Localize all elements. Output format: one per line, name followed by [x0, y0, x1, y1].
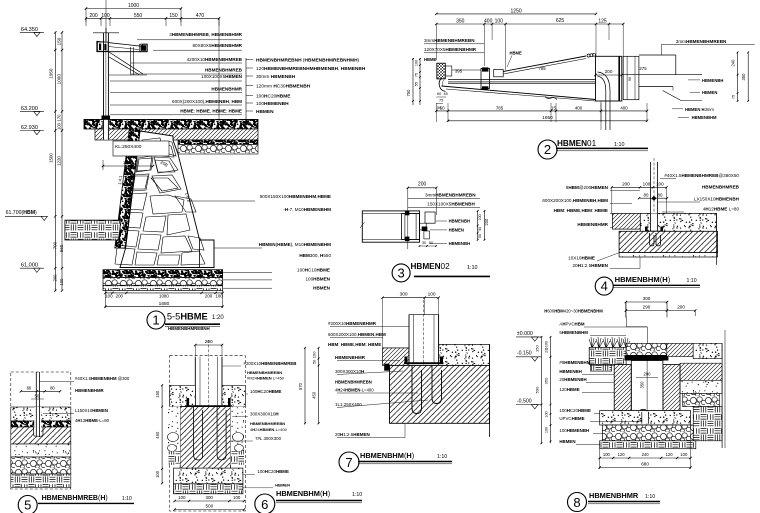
detail 4 right edge extension — [715, 213, 717, 265]
svg-text:H600HBM420~30HBMENBHM: H600HBM420~30HBMENBHM — [544, 309, 603, 314]
svg-text:5-5HBME: 5-5HBME — [167, 312, 208, 322]
detail 3 right dim column — [477, 211, 479, 240]
svg-text:120HBMENBHMREBNHMHBMENBH, HBME: 120HBMENBHMREBNHMHBMENBH, HBMENBH — [256, 66, 366, 72]
detail 4 concrete slab — [619, 231, 717, 252]
left tip gutter piece — [439, 78, 445, 92]
detail 2 top dim 1250 — [436, 13, 596, 15]
detail 4 paving layers — [612, 213, 640, 229]
svg-text:2@100: 2@100 — [545, 341, 549, 353]
UPVC pipe through slab — [642, 412, 649, 424]
svg-text:1:20: 1:20 — [212, 315, 224, 321]
svg-text:HBMEN: HBMEN — [559, 439, 575, 444]
svg-text:4H24HBMEN-L=400: 4H24HBMEN-L=400 — [250, 427, 288, 432]
right panel of box — [623, 56, 639, 99]
svg-text:8HBM@200HBMEN: 8HBM@200HBMEN — [566, 185, 609, 190]
svg-text:HBMEN H3mm: HBMEN H3mm — [685, 107, 714, 112]
detail 5 post — [35, 372, 37, 440]
detail 6 dashed border — [170, 356, 246, 511]
svg-text:L150X10HBMEN: L150X10HBMEN — [75, 408, 108, 413]
rammed soil band — [174, 484, 243, 494]
svg-text:HBMENBHMR: HBMENBHMR — [75, 388, 105, 393]
detail 3 beam body — [362, 211, 419, 242]
svg-text:#200X10HBMENBHMREB: #200X10HBMENBHMREB — [244, 361, 297, 366]
svg-text:1L1:250X400: 1L1:250X400 — [335, 402, 362, 407]
svg-text:300X300X10H: 300X300X10H — [250, 411, 279, 416]
svg-text:30mm HBMENBH: 30mm HBMENBH — [256, 74, 296, 80]
small kerb pieces below left — [591, 365, 612, 372]
svg-text:100: 100 — [643, 182, 651, 187]
break mark left — [360, 222, 365, 228]
bedding slab stipple — [174, 468, 243, 484]
svg-text:450: 450 — [155, 431, 160, 439]
svg-text:100: 100 — [545, 427, 549, 433]
svg-text:750: 750 — [406, 89, 411, 97]
svg-text:625: 625 — [556, 18, 565, 24]
svg-text:5HBMENBHM: 5HBMENBHM — [559, 330, 588, 335]
detail 6 post — [195, 357, 222, 407]
title circle 3 — [392, 264, 410, 282]
detail 4 dims 200/100/100 — [612, 186, 667, 188]
svg-text:90: 90 — [628, 77, 632, 81]
svg-text:HBMENBHMREBNH (HBMENBHMREBNHMH: HBMENBHMREBNH (HBMENBHMREBNHMH) — [256, 57, 360, 63]
post centerline — [105, 0, 107, 33]
svg-text:75: 75 — [415, 73, 419, 77]
detail 7 foundation block — [390, 365, 490, 423]
svg-text:HBMENBHMREB: HBMENBHMREB — [205, 68, 243, 73]
post passing through pavement band — [103, 119, 110, 139]
pavement concrete hatch band — [95, 129, 258, 140]
svg-text:#40X1.5HBMENBHM @300: #40X1.5HBMENBHM @300 — [75, 376, 130, 381]
svg-text:350: 350 — [544, 377, 549, 384]
svg-text:120: 120 — [666, 452, 674, 457]
svg-text:700: 700 — [53, 241, 58, 249]
top sloped chord double line — [503, 56, 586, 72]
svg-text:80X80X5HBMENBHMR: 80X80X5HBMENBHMR — [192, 43, 242, 48]
svg-text:64.350: 64.350 — [21, 27, 38, 33]
svg-text:100: 100 — [311, 351, 316, 358]
svg-text:1:10: 1:10 — [645, 494, 655, 500]
svg-text:1:10: 1:10 — [687, 278, 697, 284]
svg-text:4: 4 — [601, 279, 608, 294]
svg-text:45: 45 — [444, 92, 448, 96]
svg-text:1000: 1000 — [56, 74, 61, 85]
svg-text:100HC20HBME: 100HC20HBME — [250, 389, 282, 394]
detail 7 base plate and bolts — [404, 362, 444, 364]
svg-text:HBMEN: HBMEN — [275, 483, 290, 488]
detail 2 bottom dims — [436, 110, 647, 112]
svg-text:HBME: HBME — [424, 57, 437, 62]
svg-text:100: 100 — [603, 452, 611, 457]
svg-text:100: 100 — [495, 18, 504, 24]
svg-text:600X200X100,HBMENBH,HBM: 600X200X100,HBMENBH,HBM — [542, 198, 608, 203]
svg-text:HBM300, H550: HBM300, H550 — [299, 253, 331, 258]
bottom sloped chord — [442, 86, 596, 100]
right pavement bands top — [667, 343, 693, 356]
detail 7 left paving hatch — [383, 348, 409, 366]
svg-text:61,000: 61,000 — [21, 263, 38, 269]
svg-text:350: 350 — [640, 381, 645, 389]
svg-text:#8HBMENBHM: #8HBMENBHM — [559, 360, 590, 365]
svg-text:240: 240 — [731, 59, 736, 67]
svg-text:100: 100 — [233, 495, 241, 500]
svg-text:50: 50 — [478, 234, 482, 238]
svg-text:290: 290 — [643, 305, 651, 310]
channel bottom black bits — [641, 409, 646, 412]
title circle 2 — [538, 140, 557, 159]
grass tufts — [589, 337, 596, 348]
svg-text:75: 75 — [732, 95, 736, 99]
svg-text:HBMENBHMR: HBMENBHMR — [211, 86, 242, 91]
svg-text:HBMEN: HBMEN — [702, 90, 717, 95]
pavement dark topping band — [84, 119, 258, 129]
svg-text:4200X10HBMENBHMREB: 4200X10HBMENBHMREB — [187, 57, 243, 62]
svg-text:600X(200X100),HBMENBH, HBM: 600X(200X100),HBMENBH, HBM — [172, 99, 242, 104]
detail 6 base plate and anchor bolts — [185, 405, 232, 407]
svg-text:100HBMENBH: 100HBMENBH — [559, 428, 589, 433]
svg-text:20H1:2.5HBMEN: 20H1:2.5HBMEN — [572, 263, 608, 268]
right side framing lines — [639, 54, 676, 56]
svg-text:100: 100 — [215, 294, 223, 299]
svg-text:3mmHBMENBHMREBN: 3mmHBMENBHMREBN — [424, 38, 475, 43]
svg-text:200: 200 — [116, 294, 124, 299]
svg-text:1:10: 1:10 — [614, 142, 625, 148]
svg-text:15: 15 — [551, 105, 556, 110]
detail 5 dashed border — [11, 372, 71, 489]
svg-text:1000: 1000 — [128, 3, 139, 9]
cobble strip over channel — [626, 343, 667, 355]
left end cap of roof beam — [437, 63, 446, 79]
diagonal brace — [109, 52, 143, 74]
svg-text:120mm HC30HBMENBH: 120mm HC30HBMENBH — [256, 84, 311, 90]
svg-text:680: 680 — [641, 462, 649, 467]
svg-text:HBME: HBME, HBME: HBME: HBME: HBME, HBME: HBME — [180, 109, 242, 114]
svg-text:1680: 1680 — [159, 301, 170, 307]
beam label KL 250X400 — [113, 141, 169, 156]
detail 7 right bedding stipple — [439, 344, 490, 365]
beam end cap box — [402, 214, 420, 240]
detail 6 top stipple band — [170, 385, 196, 406]
side cobbles — [168, 433, 179, 442]
center connector with bolts — [481, 68, 490, 88]
svg-text:570: 570 — [298, 382, 303, 390]
svg-text:200: 200 — [53, 274, 58, 282]
svg-text:UPVCHBME: UPVCHBME — [559, 416, 584, 421]
detail 2 dims 350/400/100/625/125 — [436, 23, 623, 25]
svg-text:1500: 1500 — [49, 153, 54, 163]
svg-text:HBMENBHMREBN: HBMENBHMREBN — [335, 380, 372, 385]
svg-text:200: 200 — [205, 339, 213, 345]
dim 200 inside box — [596, 74, 622, 76]
svg-text:100HBMEN: 100HBMEN — [305, 277, 330, 282]
detail 8 top dims — [626, 301, 667, 303]
svg-text:200: 200 — [605, 69, 613, 74]
svg-text:100HC20HBME: 100HC20HBME — [559, 408, 591, 413]
title circle 7 — [339, 452, 359, 472]
svg-text:785: 785 — [538, 66, 546, 71]
svg-text:100: 100 — [478, 214, 482, 220]
detail 8 left dim lines — [541, 337, 543, 443]
svg-text:3mmHBMENBHMREBN: 3mmHBMENBHMREBN — [425, 192, 476, 197]
svg-text:AHPVCHBM: AHPVCHBM — [559, 321, 584, 326]
svg-text:4H12HBME-L=80: 4H12HBME-L=80 — [75, 418, 110, 423]
svg-text:1000: 1000 — [123, 160, 134, 165]
svg-text:170: 170 — [56, 114, 61, 122]
svg-text:10X10HBME: 10X10HBME — [568, 256, 595, 261]
svg-text:100: 100 — [56, 122, 61, 130]
svg-text:200: 200 — [418, 182, 427, 188]
svg-text:HBMENBHM(H): HBMENBHM(H) — [615, 275, 671, 284]
detail 5 layer bands — [11, 407, 71, 421]
title circle 5 — [18, 496, 37, 513]
svg-text:55: 55 — [415, 82, 419, 86]
svg-text:HBMENBHMR: HBMENBHMR — [577, 222, 608, 227]
svg-text:±0.000: ±0.000 — [517, 331, 533, 337]
svg-text:550: 550 — [134, 13, 143, 19]
svg-text:LX150X10HBMENBH: LX150X10HBMENBH — [694, 197, 740, 202]
svg-text:63.200: 63.200 — [21, 106, 38, 112]
svg-text:600X200X100,HBMEN,HBM: 600X200X100,HBMEN,HBM — [328, 332, 386, 337]
svg-text:HBMENBH: HBMENBH — [559, 369, 581, 374]
svg-text:KL:250X400: KL:250X400 — [115, 144, 142, 150]
right sub-base layers — [680, 363, 722, 380]
svg-text:200: 200 — [677, 305, 685, 310]
roof horizontal member — [448, 78, 596, 80]
svg-text:HBM: HBME,HBM: HBME: HBM: HBME,HBM: HBME — [328, 342, 381, 347]
detail 8 bottom dims — [600, 457, 691, 459]
rubble stones inside wall — [142, 138, 163, 154]
svg-text:8: 8 — [573, 495, 580, 510]
svg-text:100HBMENBH: 100HBMENBH — [256, 101, 289, 107]
svg-text:7#L 300X300: 7#L 300X300 — [255, 436, 282, 441]
svg-text:HBMEN: HBMEN — [449, 228, 464, 233]
svg-text:1:10: 1:10 — [467, 265, 478, 271]
svg-text:HBMEN01: HBMEN01 — [557, 139, 597, 148]
svg-text:500: 500 — [205, 504, 213, 509]
svg-text:80: 80 — [50, 386, 55, 391]
anchor U bars detail 6 — [194, 407, 203, 460]
right attachments — [425, 212, 435, 223]
title circle 8 — [568, 493, 587, 512]
svg-text:100HC20HBME: 100HC20HBME — [256, 93, 291, 99]
bolt circles at ridge — [587, 54, 590, 57]
svg-text:150: 150 — [155, 390, 160, 398]
svg-text:HBMEN: HBMEN — [256, 109, 274, 115]
post into hatch with plate — [34, 407, 41, 437]
detail 6 left dims — [161, 385, 163, 483]
svg-text:200: 200 — [644, 371, 652, 376]
svg-text:HBMEN: HBMEN — [313, 285, 331, 290]
svg-text:200: 200 — [89, 13, 98, 19]
svg-text:HBMENBHM(H): HBMENBHM(H) — [276, 489, 330, 498]
svg-text:HBMENBH: HBMENBH — [702, 78, 723, 83]
svg-text:2: 2 — [544, 142, 551, 157]
right kerb step — [200, 240, 214, 268]
svg-text:50: 50 — [429, 241, 433, 245]
svg-text:3mmHBMENBHMREBN: 3mmHBMENBHMREBN — [676, 39, 727, 44]
detail 7 anchor U bars — [412, 365, 422, 413]
svg-text:470: 470 — [196, 13, 205, 19]
svg-text:120HBME: 120HBME — [559, 387, 579, 392]
svg-text:HBMEN02: HBMEN02 — [411, 262, 451, 271]
canopy beam of pergola — [97, 41, 147, 51]
side basket strips — [168, 451, 180, 465]
svg-text:1950: 1950 — [49, 68, 54, 79]
detail 6 top dim 200 — [195, 344, 222, 346]
detail 7 top dims 300/100 — [383, 297, 439, 299]
svg-text:275: 275 — [639, 66, 647, 71]
svg-text:785: 785 — [496, 105, 504, 110]
svg-text:1:10: 1:10 — [352, 492, 362, 498]
svg-text:100: 100 — [680, 452, 688, 457]
svg-text:-H-7, M10HBMENBHM: -H-7, M10HBMENBHM — [283, 207, 331, 212]
svg-text:HBMENBH: HBMENBH — [449, 241, 470, 246]
svg-text:4H12HBME L=80: 4H12HBME L=80 — [703, 207, 740, 212]
detail 1 top dimension row segments 200/100/550/150/470 — [86, 17, 219, 19]
footing layer leaders — [223, 272, 272, 274]
drain pipe inside box — [598, 72, 611, 130]
svg-text:HBMENBH: HBMENBH — [449, 219, 470, 224]
svg-text:4H24HBMEN-L=400: 4H24HBMEN-L=400 — [335, 388, 374, 393]
detail 6 bottom dims — [175, 500, 244, 502]
svg-text:300: 300 — [206, 495, 214, 500]
right material stack ladder — [245, 58, 247, 125]
svg-text:100: 100 — [178, 495, 186, 500]
joint mark on bottom chord — [545, 97, 557, 100]
svg-text:20HBMENBH: 20HBMENBH — [559, 377, 586, 382]
svg-text:100HC20HBME: 100HC20HBME — [257, 469, 289, 474]
channel grate black bar — [625, 355, 669, 360]
svg-text:400: 400 — [620, 105, 628, 110]
svg-text:3: 3 — [397, 265, 404, 280]
svg-text:3HBMENBHMREB, HBMENBHMR: 3HBMENBHMREB, HBMENBHMR — [169, 32, 242, 37]
svg-text:1080: 1080 — [159, 294, 169, 299]
svg-text:200: 200 — [484, 218, 489, 226]
svg-text:200: 200 — [205, 294, 213, 299]
svg-text:100: 100 — [105, 294, 113, 299]
svg-text:#200X10HBMENBHMR: #200X10HBMENBHMR — [328, 321, 377, 326]
svg-text:-0.150: -0.150 — [517, 351, 532, 357]
svg-text:80: 80 — [658, 193, 663, 198]
detail 8 top left planting soil block — [589, 347, 626, 364]
svg-text:1:10: 1:10 — [437, 454, 447, 460]
svg-text:120X70X5HBMENBHMR: 120X70X5HBMENBHMR — [424, 47, 477, 52]
svg-text:100: 100 — [656, 182, 664, 187]
svg-text:400: 400 — [575, 105, 583, 110]
svg-text:100: 100 — [428, 292, 436, 298]
footing dimension rows — [105, 292, 222, 294]
pergola post double lines — [103, 33, 105, 120]
svg-text:150: 150 — [169, 13, 178, 19]
left vertical dimension lines — [54, 32, 56, 290]
rammed soil bottom band — [600, 441, 696, 449]
detail 2 left dim column — [412, 58, 414, 105]
svg-text:1220: 1220 — [56, 156, 61, 166]
right sidewalk bedding + cobble — [178, 140, 258, 145]
svg-text:HBMEN(HBME), M10HBMENBHM: HBMEN(HBME), M10HBMENBHM — [259, 242, 331, 247]
svg-text:62.930: 62.930 — [21, 125, 38, 131]
pier side stipple columns — [168, 407, 180, 456]
svg-text:395: 395 — [455, 69, 463, 74]
svg-text:#M24HBMEN L=450: #M24HBMEN L=450 — [247, 376, 285, 381]
svg-text:100: 100 — [545, 411, 549, 417]
svg-text:200: 200 — [622, 182, 630, 187]
svg-text:61.700(HBM): 61.700(HBM) — [6, 210, 37, 216]
detail 5 dims 80/80 and 50 — [21, 390, 60, 392]
svg-text:150: 150 — [56, 37, 61, 45]
gravel cobble band — [602, 425, 693, 441]
detail 8 first callout leader box — [625, 317, 627, 327]
svg-text:HBMENBHMREBN: HBMENBHMREBN — [250, 421, 285, 426]
detail 4 base plate and bolts — [645, 231, 663, 233]
svg-text:100HC10HBME: 100HC10HBME — [297, 268, 330, 273]
svg-text:7: 7 — [345, 455, 352, 470]
dim 1000 under beam — [103, 165, 153, 167]
left existing pavement brick band at 61.700 — [65, 220, 121, 240]
detail 1 top dimension row total 1000 — [86, 8, 181, 10]
svg-text:1:10: 1:10 — [122, 496, 132, 502]
svg-text:100: 100 — [59, 278, 64, 286]
svg-text:590: 590 — [535, 386, 540, 393]
channel cavity — [631, 361, 663, 411]
right margin verticals — [721, 343, 723, 448]
svg-text:125: 125 — [598, 18, 607, 24]
svg-text:1: 1 — [152, 313, 159, 328]
svg-text:300: 300 — [400, 292, 408, 298]
svg-text:HBME: HBME — [510, 51, 523, 56]
svg-text:HBMENBHMREB: HBMENBHMREB — [702, 185, 740, 190]
detail 7 left dim column — [304, 348, 306, 423]
svg-text:HBMENBHMR: HBMENBHMR — [335, 355, 366, 360]
svg-text:100X100X5HBMEN: 100X100X5HBMEN — [201, 74, 243, 79]
detail 6 foundation hatch — [180, 407, 230, 469]
svg-text:150: 150 — [535, 344, 540, 351]
svg-text:350: 350 — [741, 73, 746, 81]
svg-text:HBMENBHMR: HBMENBHMR — [589, 491, 639, 500]
channel walls — [614, 365, 631, 411]
svg-text:100: 100 — [415, 60, 419, 66]
svg-text:1250: 1250 — [511, 8, 522, 14]
svg-text:560: 560 — [59, 244, 64, 252]
svg-text:300: 300 — [643, 296, 651, 301]
svg-text:1650: 1650 — [542, 115, 553, 121]
svg-text:80: 80 — [644, 193, 649, 198]
title circle 4 — [595, 277, 613, 295]
main roof box / flue — [596, 56, 622, 101]
svg-text:#40X1.5HBMENBHMREB@380X50: #40X1.5HBMENBHMREB@380X50 — [664, 173, 739, 178]
svg-text:50: 50 — [440, 105, 445, 110]
title circle 1 — [147, 311, 165, 329]
svg-text:80: 80 — [27, 386, 32, 391]
svg-text:30: 30 — [422, 241, 426, 245]
svg-text:50: 50 — [478, 227, 482, 231]
svg-text:240: 240 — [642, 452, 650, 457]
svg-text:HBMENBHM(H): HBMENBHM(H) — [360, 451, 414, 460]
bottom slab stipple concrete — [600, 411, 691, 426]
svg-text:120: 120 — [618, 452, 626, 457]
svg-text:-0.500: -0.500 — [517, 398, 532, 404]
title circle 6 — [255, 494, 275, 513]
svg-text:5: 5 — [24, 498, 31, 513]
svg-text:450: 450 — [311, 391, 316, 399]
svg-text:400: 400 — [484, 18, 493, 24]
anchor U bars — [650, 233, 655, 246]
detail 4 dims 80/80 — [639, 197, 667, 199]
svg-text:350: 350 — [456, 18, 465, 24]
svg-text:50: 50 — [312, 360, 316, 364]
stone retaining wall outline — [115, 129, 140, 248]
footing slab layers — [103, 270, 223, 278]
svg-text:20H1:2.5HBMEN: 20H1:2.5HBMEN — [335, 432, 370, 437]
